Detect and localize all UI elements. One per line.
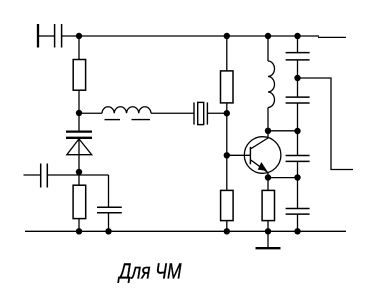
crystal ZQ1 left electrode <box>193 102 195 124</box>
node crystal right <box>224 110 230 116</box>
capacitor C3 bottom plate <box>97 212 122 214</box>
resistor R5 <box>221 190 234 220</box>
node bottom R5 <box>224 228 230 234</box>
capacitor C5 top plate <box>286 96 310 98</box>
node bottom R4 ground <box>265 228 271 234</box>
transistor VT1 emitter stroke <box>251 160 268 173</box>
transistor VT1 collector stroke <box>251 138 268 149</box>
varicap VD1 plate bottom <box>66 137 92 139</box>
wire <box>78 36 80 60</box>
node top L2 <box>265 33 271 39</box>
wire collector to right rail <box>268 130 298 132</box>
wire <box>226 103 228 190</box>
wire <box>297 161 299 208</box>
node emitter <box>265 174 271 180</box>
wire <box>78 139 80 185</box>
wire <box>297 60 299 97</box>
varicap VD1 plate top <box>66 130 92 132</box>
crystal ZQ1 right electrode <box>206 102 208 124</box>
wire <box>24 174 41 176</box>
wire <box>267 221 269 232</box>
resistor R1 <box>73 60 85 91</box>
node right rail top <box>294 75 300 81</box>
wire <box>226 221 228 232</box>
wire <box>297 103 299 155</box>
crystal ZQ1 body <box>198 102 204 124</box>
wire ground lead <box>267 231 269 248</box>
wire top right lowered segment <box>318 36 346 38</box>
node collector <box>265 128 271 134</box>
wire right rail seg1 <box>297 36 299 52</box>
wire <box>207 112 226 114</box>
transistor VT1 base bar <box>249 147 251 164</box>
transistor VT1 emitter arrow <box>259 163 267 170</box>
capacitor C7 bottom plate <box>286 213 310 215</box>
wire rail R2 <box>226 36 228 71</box>
capacitor C2 left plate <box>40 164 42 188</box>
inductor L1 <box>102 107 151 113</box>
node left mid <box>76 110 82 116</box>
wire <box>151 112 194 114</box>
wire emitter to right rail <box>268 177 298 179</box>
ground <box>256 247 281 249</box>
wire <box>39 35 54 37</box>
wire collector <box>267 131 269 139</box>
transistor VT1 circle <box>244 137 281 174</box>
capacitor C5 bottom plate <box>286 102 310 104</box>
wire <box>48 174 109 176</box>
wire <box>78 90 80 130</box>
capacitor C2 right plate <box>46 164 48 188</box>
node bottom right <box>294 228 300 234</box>
inductor L2 <box>268 61 275 108</box>
node base <box>224 152 230 158</box>
wire <box>267 108 269 131</box>
wire <box>267 178 269 191</box>
wire <box>78 219 80 232</box>
node varicap bottom <box>76 169 82 175</box>
node right rail mid2 <box>294 174 300 180</box>
node bottom C3 <box>105 228 111 234</box>
capacitor C1 left plate <box>54 24 56 48</box>
capacitor C4 top plate <box>286 52 310 54</box>
svg-text:Для ЧМ: Для ЧМ <box>117 258 182 283</box>
node top R2 <box>224 33 230 39</box>
node right rail mid1 <box>294 128 300 134</box>
wire base lead <box>227 154 251 156</box>
wire emitter <box>267 173 269 178</box>
wire output L-shape <box>298 78 354 170</box>
capacitor C6 bottom plate <box>286 160 310 162</box>
wire top rail <box>62 35 319 37</box>
capacitor C7 top plate <box>286 208 310 210</box>
wire <box>108 213 110 231</box>
inductor L1 core dash 1 <box>105 119 121 121</box>
wire rail L2 top <box>267 36 269 61</box>
capacitor C6 top plate <box>286 155 310 157</box>
resistor R3 <box>73 185 86 218</box>
node bottom R3 <box>76 228 82 234</box>
capacitor C4 bottom plate <box>286 59 310 61</box>
terminal bar (input) <box>37 24 39 48</box>
node top right <box>294 33 300 39</box>
wire <box>79 112 102 114</box>
capacitor C3 top plate <box>97 206 122 208</box>
wire <box>297 214 299 231</box>
capacitor C1 right plate <box>61 24 63 48</box>
resistor R4 <box>262 190 274 220</box>
wire <box>108 175 110 207</box>
node top-left <box>76 33 82 39</box>
inductor L1 core dash 2 <box>132 119 151 121</box>
resistor R2 <box>221 71 234 103</box>
varicap VD1 triangle <box>67 139 92 155</box>
wire bottom rail <box>25 230 346 232</box>
